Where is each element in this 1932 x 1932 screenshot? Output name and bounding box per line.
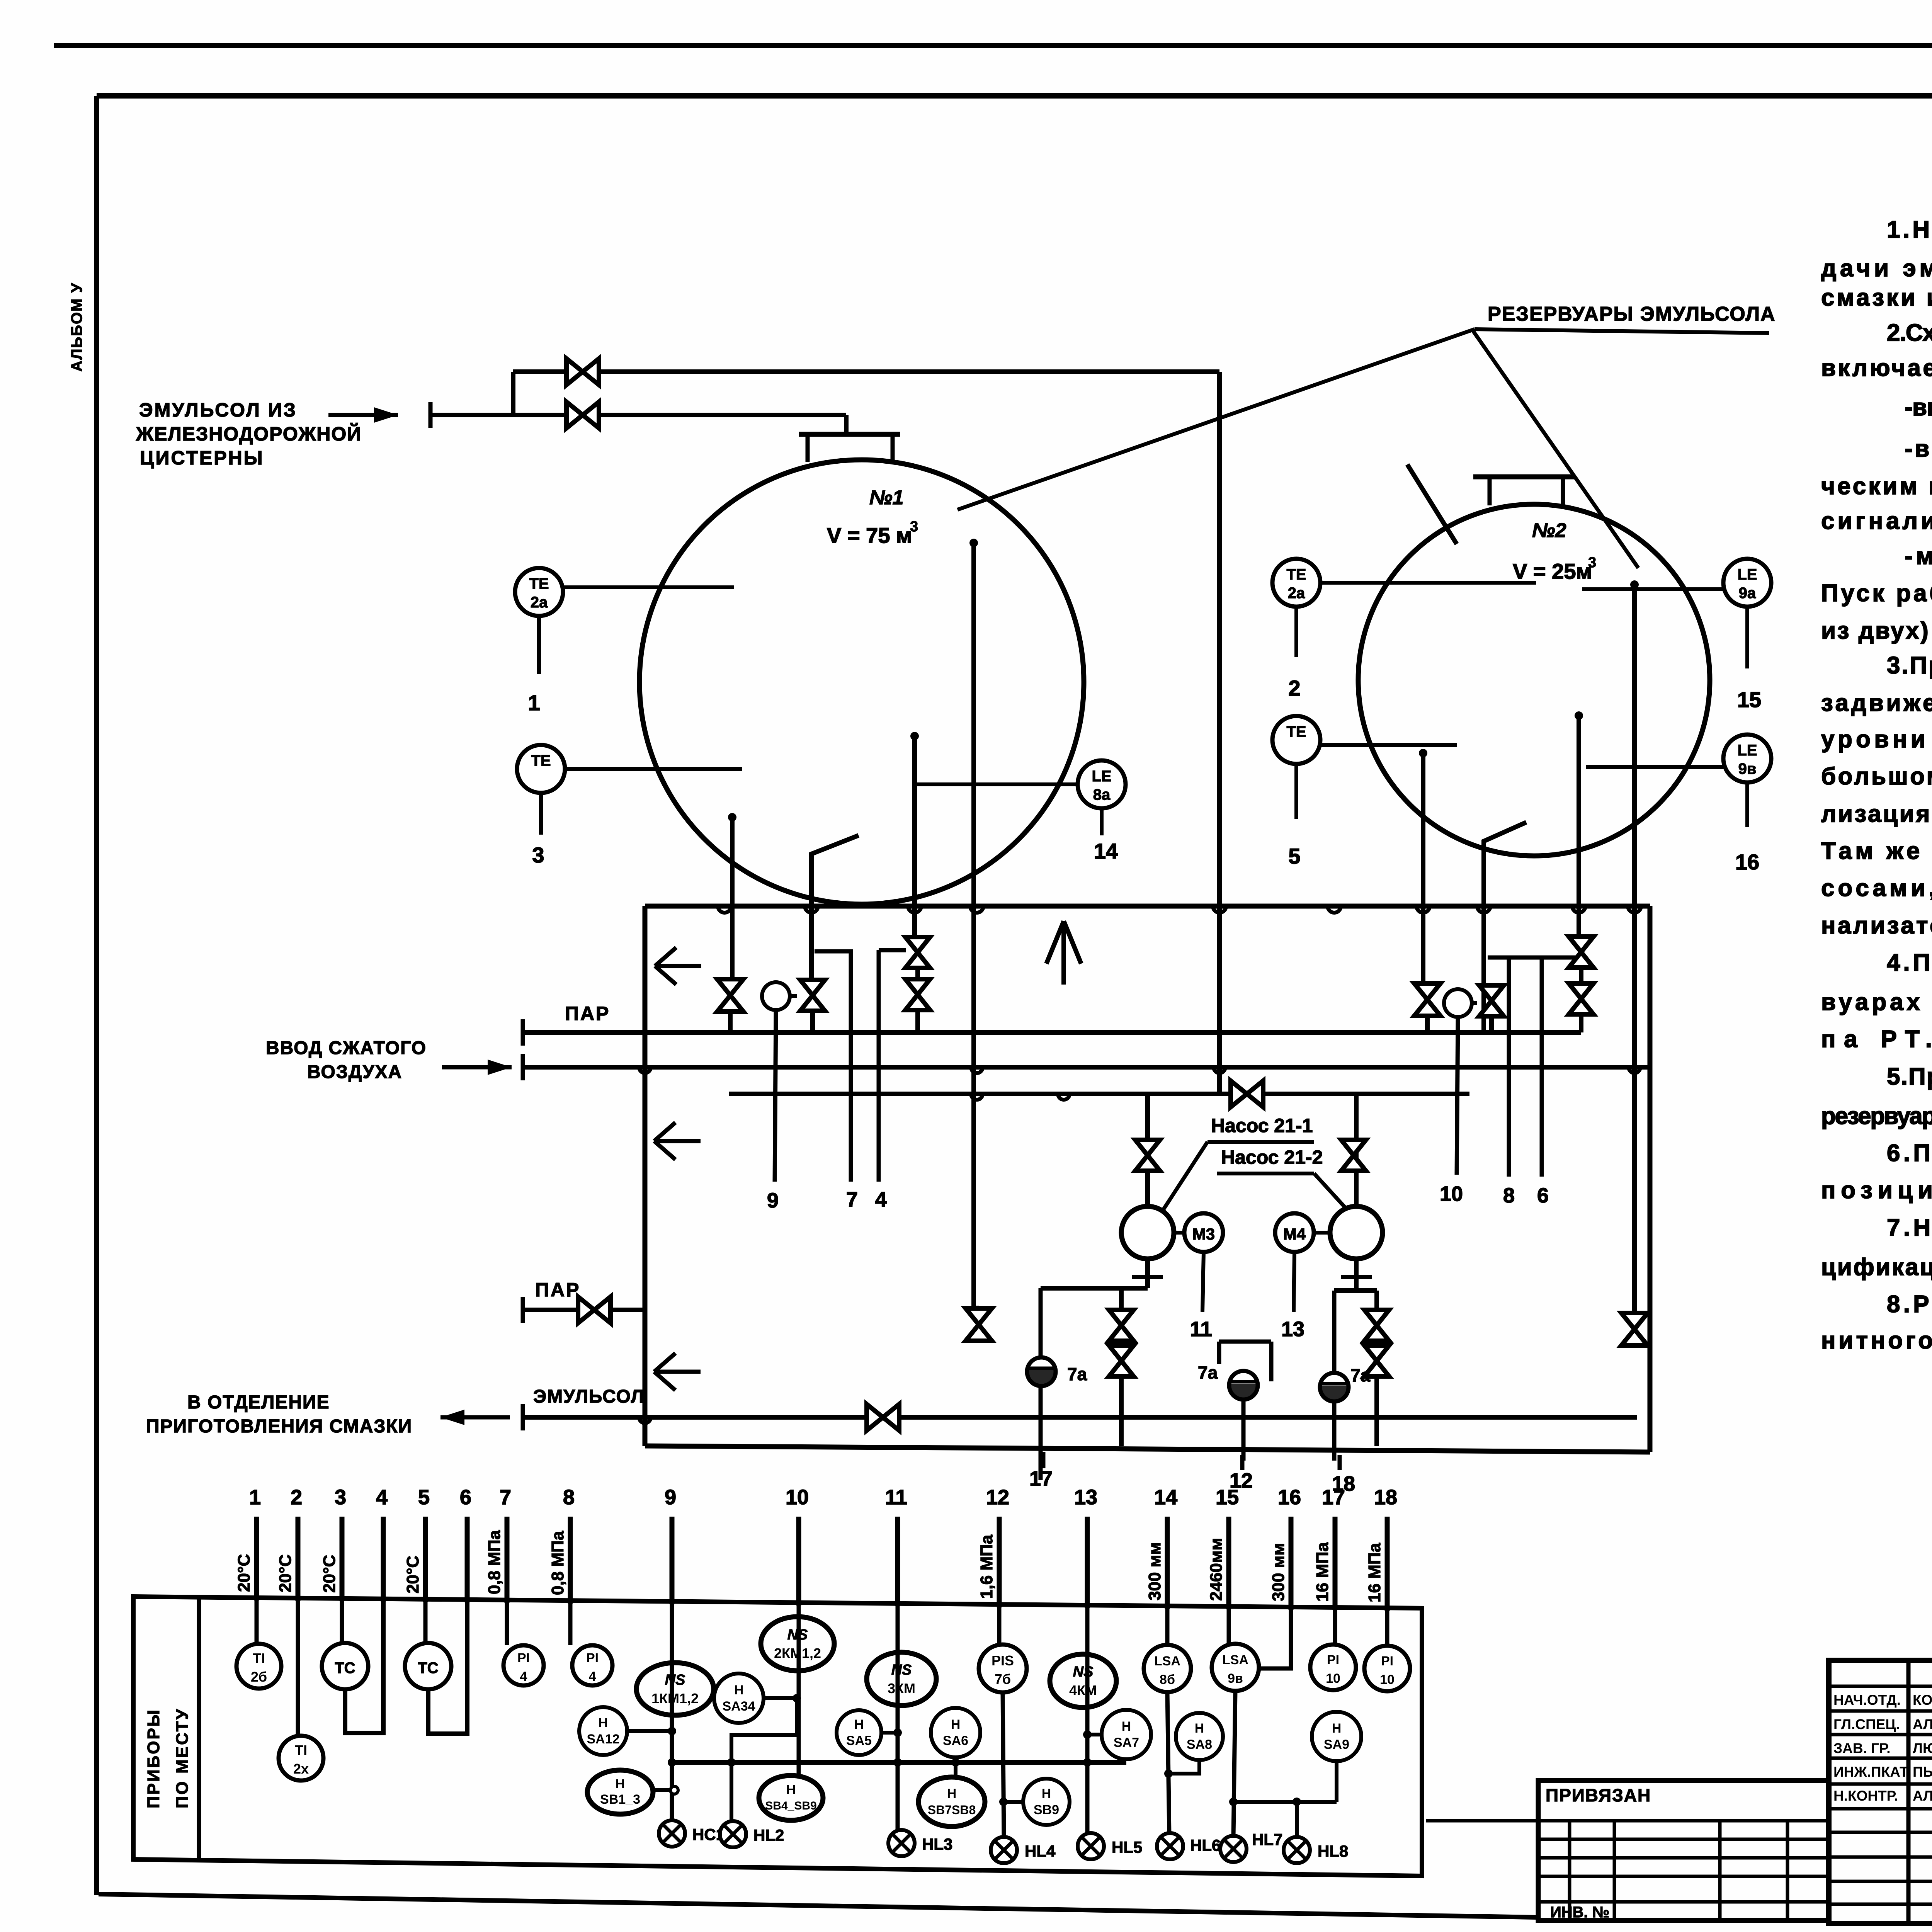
motor M4 [1275, 1213, 1314, 1252]
starter NS 4KM [1085, 1605, 1090, 1843]
temperature regulator RT of tank 1 [762, 982, 790, 1010]
svg-text:8а: 8а [1093, 786, 1111, 803]
local instruments label box divider [197, 1597, 201, 1860]
svg-text:Н.КОНТР.: Н.КОНТР. [1833, 1788, 1898, 1804]
regulator valve tank 2 [1479, 985, 1504, 1016]
svg-text:РI: РI [586, 1651, 599, 1665]
inlet boundary tick [429, 402, 433, 428]
svg-text:1,6 МПа: 1,6 МПа [977, 1534, 996, 1599]
steam line 2 [523, 1308, 646, 1312]
instrument TE 2a of tank 1 [515, 568, 563, 616]
svg-text:НL7: НL7 [1252, 1830, 1282, 1849]
lamp HL8 [1284, 1837, 1310, 1863]
switch H SA8 [1176, 1713, 1223, 1760]
wire LE8a to tank 1 dip pipe [914, 782, 1078, 786]
svg-text:АЛЬБОМ У: АЛЬБОМ У [68, 282, 85, 372]
svg-text:НL5: НL5 [1112, 1838, 1142, 1856]
instrument TE of tank 1 [517, 745, 565, 793]
svg-text:-выбор рабочего насоса из двух: -выбор рабочего насоса из двух имеющихся… [1905, 435, 1932, 462]
pressure gauge 7a pump 2 [1332, 1291, 1337, 1461]
svg-text:SА12: SА12 [587, 1732, 619, 1747]
svg-text:7.Номера позиций приборов прин: 7.Номера позиций приборов приняты соглас… [1887, 1214, 1932, 1241]
leader to tank 2 [1473, 331, 1638, 568]
signal column 6 lead [465, 1517, 470, 1602]
svg-text:SВ4_SВ9: SВ4_SВ9 [765, 1799, 816, 1812]
stem below TE2a [537, 616, 541, 674]
pump 21-2 [1330, 1206, 1383, 1259]
svg-text:ТЕ: ТЕ [1286, 566, 1306, 583]
wire TE to tank 1 [565, 767, 742, 771]
wire col16 elbow to LSA9v [1259, 1607, 1291, 1668]
svg-text:4КМ: 4КМ [1069, 1682, 1097, 1698]
switch H SA6 [931, 1708, 980, 1757]
svg-text:16: 16 [1278, 1486, 1301, 1509]
svg-text:1КМ1,2: 1КМ1,2 [651, 1690, 699, 1706]
svg-text:V = 25м: V = 25м [1513, 559, 1592, 583]
leader to tank 1 [957, 329, 1475, 510]
svg-text:LSА: LSА [1154, 1654, 1180, 1668]
instrument TC col3 [340, 1598, 344, 1643]
svg-text:NS: NS [665, 1672, 685, 1688]
instrument LE 9b of tank 2 [1723, 735, 1771, 782]
svg-text:SА34: SА34 [722, 1699, 755, 1714]
switch H SA34 [714, 1673, 764, 1723]
svg-text:М3: М3 [1192, 1225, 1215, 1243]
svg-text:Н: Н [1042, 1786, 1051, 1801]
svg-text:13: 13 [1074, 1486, 1097, 1509]
svg-text:6.Приборы, в обозначении котор: 6.Приборы, в обозначении которых отсутст… [1887, 1140, 1932, 1167]
svg-text:из двух) задвижке на трубопров: из двух) задвижке на трубопроводе сжатог… [1821, 617, 1932, 644]
svg-text:Н: Н [734, 1683, 744, 1697]
instrument TE 2a of tank 2 [1272, 559, 1320, 607]
svg-text:2.Схема автоматизации перекачи: 2.Схема автоматизации перекачивающих нас… [1887, 320, 1932, 346]
svg-text:ИНЖ.ПКАТ.: ИНЖ.ПКАТ. [1833, 1764, 1911, 1780]
svg-text:11: 11 [885, 1486, 907, 1509]
signal column 15 lead [1226, 1517, 1231, 1609]
signal column 14 lead [1165, 1517, 1170, 1609]
svg-text:Насос 21-2: Насос 21-2 [1221, 1146, 1323, 1168]
signal column 10 lead [796, 1517, 801, 1605]
svg-text:-выбор управления (местное и д: -выбор управления (местное и дистанционн… [1905, 394, 1932, 421]
svg-text:КОНДРАТЬЕВ: КОНДРАТЬЕВ [1913, 1692, 1932, 1708]
svg-text:1: 1 [528, 690, 540, 715]
pressure gauge 7a pump 1 [1039, 1288, 1043, 1480]
svg-text:SВ9: SВ9 [1034, 1803, 1059, 1817]
pump suction header [729, 1092, 1469, 1096]
signal column 3 lead [340, 1517, 345, 1601]
pump 2 discharge valves [1364, 1310, 1389, 1341]
inlet pipe to tee [430, 413, 513, 417]
svg-text:№2: №2 [1532, 519, 1566, 542]
signal column 7 lead [505, 1517, 510, 1603]
svg-text:2а: 2а [1288, 585, 1305, 602]
svg-text:8: 8 [1503, 1184, 1515, 1207]
pump 1 discharge header [1041, 1286, 1148, 1291]
svg-text:7а: 7а [1067, 1364, 1087, 1384]
bypass tee riser [511, 372, 515, 415]
stem below LE8a [1100, 808, 1104, 835]
tank 1 heater pipe hook [811, 835, 859, 978]
svg-text:9: 9 [665, 1486, 676, 1509]
svg-text:V = 75 м: V = 75 м [827, 523, 912, 548]
svg-text:3: 3 [910, 519, 918, 535]
tank 1 nozzle riser [844, 415, 849, 434]
instrument TI 2b col1 [255, 1597, 259, 1644]
stem below tank2 TE2a [1294, 607, 1298, 657]
signal column 16 lead [1289, 1517, 1294, 1610]
inlet flow arrow [328, 413, 398, 417]
svg-text:Н: Н [1122, 1719, 1131, 1734]
svg-text:ЖЕЛЕЗНОДОРОЖНОЙ: ЖЕЛЕЗНОДОРОЖНОЙ [136, 423, 362, 445]
instrument TE of tank 2 [1272, 716, 1320, 764]
svg-text:8.Резервная буква N применена: 8.Резервная буква N применена для обозна… [1887, 1291, 1932, 1318]
svg-text:9в: 9в [1228, 1671, 1243, 1686]
crossing bumps on air line [639, 1067, 651, 1073]
temperature regulator RT of tank 2 [1444, 989, 1472, 1017]
svg-text:включает в себя:: включает в себя: [1821, 355, 1932, 381]
M4 stem to pos 13 [1294, 1252, 1294, 1312]
regulator sensing stem to pos 10 [1457, 1017, 1458, 1175]
svg-text:0,8 МПа: 0,8 МПа [485, 1530, 504, 1594]
switch H SA12 [579, 1707, 627, 1755]
instrument PI 10 col18 [1385, 1608, 1389, 1646]
svg-text:ческим включением резервного н: ческим включением резервного насоса при … [1821, 473, 1932, 500]
svg-text:10: 10 [1326, 1671, 1340, 1686]
svg-text:9а: 9а [1739, 585, 1756, 602]
svg-text:№1: №1 [869, 486, 904, 509]
svg-text:цификации оборудования.: цификации оборудования. [1821, 1254, 1932, 1281]
svg-text:ТЕ: ТЕ [531, 752, 551, 769]
svg-text:2: 2 [1288, 676, 1300, 700]
svg-text:15: 15 [1737, 687, 1761, 712]
recirculation loop header (top manifold) [645, 904, 1650, 909]
svg-text:Насос 21-1: Насос 21-1 [1211, 1115, 1313, 1136]
svg-text:7а: 7а [1198, 1362, 1218, 1383]
wire SA8 down to HL6 stem [1168, 1760, 1199, 1774]
svg-text:20°С: 20°С [320, 1555, 339, 1593]
svg-text:Н: Н [951, 1717, 961, 1732]
lamp HC1 [659, 1820, 685, 1847]
svg-text:SА8: SА8 [1187, 1737, 1212, 1752]
pump 1 discharge pipe [1145, 1259, 1150, 1288]
svg-text:НL8: НL8 [1318, 1842, 1348, 1860]
svg-text:ЛЮБИЧЕВ: ЛЮБИЧЕВ [1913, 1740, 1932, 1756]
capillary col4 to TC [345, 1599, 383, 1733]
svg-text:ПАР: ПАР [535, 1279, 580, 1301]
svg-text:РЕЗЕРВУАРЫ ЭМУЛЬСОЛА: РЕЗЕРВУАРЫ ЭМУЛЬСОЛА [1488, 303, 1776, 325]
wire TE to tank 2 [1320, 743, 1457, 747]
svg-text:9: 9 [767, 1189, 779, 1212]
svg-text:7: 7 [500, 1486, 511, 1509]
lamp HL5 [1078, 1833, 1104, 1859]
svg-text:SВ7SВ8: SВ7SВ8 [928, 1803, 976, 1817]
left flow arrow 2 [654, 1122, 701, 1160]
tank 2 dip pipe a [1419, 749, 1427, 757]
svg-text:Н: Н [1332, 1721, 1342, 1736]
fill header drop pipe right of tank 1 [1217, 372, 1222, 1092]
regulator valve tank 1 [800, 980, 825, 1011]
instrument PI 10 col17 [1333, 1607, 1337, 1645]
svg-text:7: 7 [846, 1188, 858, 1211]
svg-text:17: 17 [1029, 1467, 1053, 1490]
tank 2 level dip pipe [1630, 580, 1639, 589]
svg-text:4: 4 [376, 1486, 388, 1509]
svg-text:НАЧ.ОТД.: НАЧ.ОТД. [1833, 1692, 1901, 1708]
svg-text:2: 2 [291, 1486, 302, 1509]
pump 2 discharge pipe [1354, 1259, 1359, 1291]
svg-text:Н: Н [786, 1782, 796, 1797]
svg-text:ТI: ТI [295, 1742, 307, 1758]
tank 1 nozzle flange [799, 432, 900, 437]
svg-text:ГЛ.СПЕЦ.: ГЛ.СПЕЦ. [1833, 1716, 1900, 1732]
valve on tank 1 drain a [717, 979, 743, 1012]
pump 21-1 [1121, 1206, 1174, 1259]
left flow arrow 1 [655, 947, 701, 985]
valve on steam line 2 [578, 1297, 611, 1323]
svg-text:1.На данном листе приведена сх: 1.На данном листе приведена схема автома… [1887, 216, 1932, 243]
svg-text:Н: Н [599, 1716, 608, 1730]
svg-text:НL3: НL3 [922, 1835, 952, 1853]
svg-text:4.Поддержание температуры +20°: 4.Поддержание температуры +20°С эмульсол… [1887, 949, 1932, 976]
svg-text:NS: NS [1073, 1664, 1094, 1680]
starter NS 3KM [896, 1603, 900, 1833]
starter NS 1KM1,2 [670, 1601, 674, 1833]
svg-text:SА9: SА9 [1324, 1737, 1349, 1752]
attachment table rows [1538, 1819, 1829, 1823]
wire TE2a to tank 1 [563, 585, 734, 589]
lower fill pipe to tank 1 nozzle [430, 413, 846, 417]
svg-text:3КМ: 3КМ [888, 1680, 915, 1696]
title block small table columns [1906, 1660, 1911, 1923]
svg-text:Н: Н [616, 1777, 625, 1791]
svg-text:НL2: НL2 [753, 1826, 784, 1844]
svg-text:ПРИБОРЫ: ПРИБОРЫ [144, 1708, 163, 1808]
svg-text:резервуарах.: резервуарах. [1821, 1103, 1932, 1129]
svg-text:М4: М4 [1283, 1225, 1306, 1243]
lamp HL4 [991, 1837, 1017, 1863]
svg-text:15: 15 [1216, 1486, 1239, 1509]
svg-text:ТС: ТС [335, 1660, 355, 1677]
svg-text:сосами, задвижками и вторичные: сосами, задвижками и вторичные преобразо… [1821, 875, 1932, 901]
junction bus right [1233, 1800, 1337, 1804]
valve on tank2 level line [1621, 1313, 1648, 1345]
svg-text:ЦИСТЕРНЫ: ЦИСТЕРНЫ [140, 447, 264, 469]
lamp HL2 [720, 1821, 746, 1847]
valve on pump suction header [1231, 1081, 1263, 1107]
wire SA9 to bus [1335, 1761, 1338, 1802]
bridge pipe tank 2 [1488, 956, 1581, 960]
pump 1 discharge valves [1109, 1310, 1134, 1341]
svg-text:ТI: ТI [253, 1650, 265, 1666]
lamp HL8 stem [1295, 1802, 1299, 1837]
svg-text:14: 14 [1154, 1486, 1177, 1509]
signal column 11 lead [895, 1517, 900, 1606]
pump 2 suction valve [1354, 1094, 1359, 1206]
svg-text:ПРИГОТОВЛЕНИЯ СМАЗКИ: ПРИГОТОВЛЕНИЯ СМАЗКИ [146, 1416, 412, 1437]
loop left riser [643, 906, 648, 1446]
leader slash at tank 2 top [1407, 464, 1457, 544]
svg-text:Н: Н [947, 1786, 957, 1801]
wire SA5 to col11 [881, 1731, 898, 1735]
svg-text:задвижек. Кроме того, контроли: задвижек. Кроме того, контролируются с с… [1821, 690, 1932, 716]
svg-text:SА5: SА5 [846, 1733, 872, 1748]
signal column 5 lead [423, 1517, 428, 1602]
up flow arrow on manifold [1061, 924, 1066, 985]
svg-text:2x: 2x [293, 1761, 309, 1777]
tank 1 dip pipe a [728, 813, 736, 821]
svg-text:Пуск рабочего насоса возможен: Пуск рабочего насоса возможен только при… [1821, 580, 1932, 607]
svg-text:Н: Н [854, 1717, 864, 1732]
svg-text:3: 3 [335, 1486, 346, 1509]
regulator sensing stem to pos 9 [775, 1010, 776, 1182]
loop right riser [1648, 906, 1653, 1452]
instrument LE 9a of tank 2 [1723, 559, 1771, 607]
svg-text:11: 11 [1190, 1318, 1212, 1341]
svg-text:1: 1 [249, 1486, 261, 1509]
wire LE9b to tank 2 [1586, 765, 1723, 769]
svg-text:РI: РI [1327, 1653, 1339, 1667]
svg-text:SА7: SА7 [1114, 1735, 1139, 1750]
tank 2 vessel circle [1358, 504, 1710, 856]
svg-text:12: 12 [986, 1486, 1009, 1509]
svg-text:20°С: 20°С [403, 1556, 422, 1594]
attachment table columns [1568, 1821, 1571, 1920]
stem below tank2 TE [1294, 764, 1298, 819]
frame bottom inner line [99, 1894, 1537, 1917]
bump on emulsol line at loop riser [639, 1417, 651, 1423]
svg-text:ПАР: ПАР [565, 1003, 610, 1024]
tank 2 dip pipe b [1575, 711, 1583, 720]
svg-text:14: 14 [1094, 839, 1118, 863]
stem below LE9a [1745, 607, 1749, 668]
valve on lower fill pipe [566, 402, 599, 428]
svg-text:8: 8 [563, 1486, 575, 1509]
svg-text:АЛЕКСЕЕВ: АЛЕКСЕЕВ [1913, 1716, 1932, 1732]
valve on emulsol line [867, 1404, 899, 1430]
svg-text:сигнализацией о работе и авари: сигнализацией о работе и аварии насосов; [1821, 508, 1932, 534]
compressed air arrow [442, 1065, 512, 1070]
control bus [672, 1760, 1126, 1765]
svg-text:4: 4 [875, 1188, 887, 1211]
svg-text:6: 6 [1537, 1184, 1549, 1207]
stem to pos 8 [1507, 957, 1511, 1177]
capillary col6 to TC [428, 1599, 467, 1734]
signal column 18 lead [1385, 1517, 1390, 1611]
svg-text:Н: Н [1195, 1721, 1204, 1736]
svg-text:3: 3 [1588, 554, 1596, 571]
signal column 1 lead [254, 1517, 259, 1600]
crossing bumps on top manifold [718, 906, 731, 913]
alarm LSA 9v col15 [1227, 1606, 1231, 1644]
M3 stem to pos 11 [1202, 1252, 1204, 1312]
svg-text:16: 16 [1735, 850, 1759, 874]
valve on tank 2 drain a [1414, 983, 1440, 1016]
steam 2 boundary tick [521, 1297, 525, 1323]
upper fill pipe [513, 369, 1219, 374]
attachment table row line extension left [1426, 1819, 1538, 1823]
tank 1 dip pipe to pump header [910, 732, 919, 740]
svg-text:NS: NS [787, 1627, 808, 1643]
bumps on suction header [971, 1094, 983, 1100]
compressed air line [523, 1065, 1650, 1070]
leader to pump 2 [1314, 1173, 1350, 1213]
wire SA34 jog to bus [731, 1698, 798, 1821]
signal column 4 lead [381, 1517, 386, 1602]
wire SA7 to col13 [1087, 1733, 1102, 1736]
svg-text:17: 17 [1322, 1486, 1345, 1509]
svg-text:РIS: РIS [992, 1653, 1014, 1668]
svg-text:LЕ: LЕ [1737, 742, 1757, 759]
col14 stem to lamp HL6 [1167, 1692, 1169, 1835]
svg-text:ИНВ. №: ИНВ. № [1550, 1904, 1609, 1921]
svg-text:2б: 2б [251, 1669, 267, 1685]
instrument PI 4 col8 [568, 1600, 573, 1645]
svg-text:РI: РI [517, 1651, 530, 1665]
drain ticks below return line [1041, 1452, 1046, 1468]
signal column 12 lead [997, 1517, 1002, 1607]
bridge pipe over steam line tank1 [815, 951, 851, 1182]
emulsol boundary tick [521, 1404, 525, 1430]
svg-text:9в: 9в [1738, 760, 1757, 777]
title block outline [1829, 1660, 1932, 1923]
svg-text:LSА: LSА [1222, 1653, 1248, 1667]
svg-text:10: 10 [786, 1486, 809, 1509]
wire TE2a to tank 2 [1320, 581, 1536, 585]
stem to pos 6 [1540, 957, 1544, 1177]
svg-text:20°С: 20°С [235, 1554, 253, 1592]
wire SB9 to HL4 stem [1003, 1800, 1023, 1804]
motor M3 [1184, 1213, 1223, 1252]
instrument TC col5 [423, 1599, 428, 1643]
attachment box PRIVYAZAN [1538, 1781, 1829, 1920]
twin block valves tank 1 [915, 935, 920, 1032]
svg-text:NS: NS [891, 1662, 912, 1678]
svg-text:АЛЕКСЕЕВ: АЛЕКСЕЕВ [1913, 1788, 1932, 1804]
tank 2 nozzle flange [1473, 474, 1575, 480]
wire SA12 to col9 [627, 1729, 672, 1733]
pump 2 discharge header [1334, 1288, 1377, 1293]
drawing frame top edge [54, 43, 1932, 48]
wire SA6 to SB7SB8 [954, 1757, 957, 1777]
loop bottom return line [645, 1446, 1650, 1452]
alarm LSA 8b col14 [1165, 1606, 1170, 1645]
svg-text:8б: 8б [1160, 1672, 1175, 1687]
signal column 9 lead [670, 1517, 675, 1604]
svg-text:0,8 МПа: 0,8 МПа [548, 1531, 567, 1595]
twin block valves tank 2 [1579, 935, 1583, 1032]
instrument LE 8a of tank 1 [1078, 760, 1126, 808]
svg-text:10: 10 [1380, 1672, 1395, 1687]
svg-text:ВОЗДУХА: ВОЗДУХА [307, 1062, 402, 1082]
signal column 8 lead [568, 1517, 573, 1604]
svg-text:ЭМУЛЬСОЛ ИЗ: ЭМУЛЬСОЛ ИЗ [139, 399, 297, 421]
starter NS 2KM1,2 [797, 1602, 801, 1775]
pump 1 suction valve [1145, 1094, 1150, 1206]
stem below TE [539, 793, 543, 835]
tee from block valves to pos 4 [879, 950, 906, 1182]
tank 1 level dip pipe [969, 539, 978, 547]
buttons H SB9 [1023, 1779, 1070, 1825]
svg-text:7а: 7а [1350, 1365, 1371, 1385]
svg-text:3: 3 [532, 843, 544, 867]
svg-text:ЭМУЛЬСОЛ: ЭМУЛЬСОЛ [533, 1386, 645, 1407]
svg-text:ПЫЖОВА: ПЫЖОВА [1913, 1764, 1932, 1780]
lamp HL7 [1220, 1836, 1247, 1862]
switch H SA5 [837, 1710, 881, 1755]
lamp HL3 [888, 1830, 915, 1856]
buttons H SB4_SB9 [759, 1776, 823, 1820]
frame left edge [94, 96, 99, 1895]
